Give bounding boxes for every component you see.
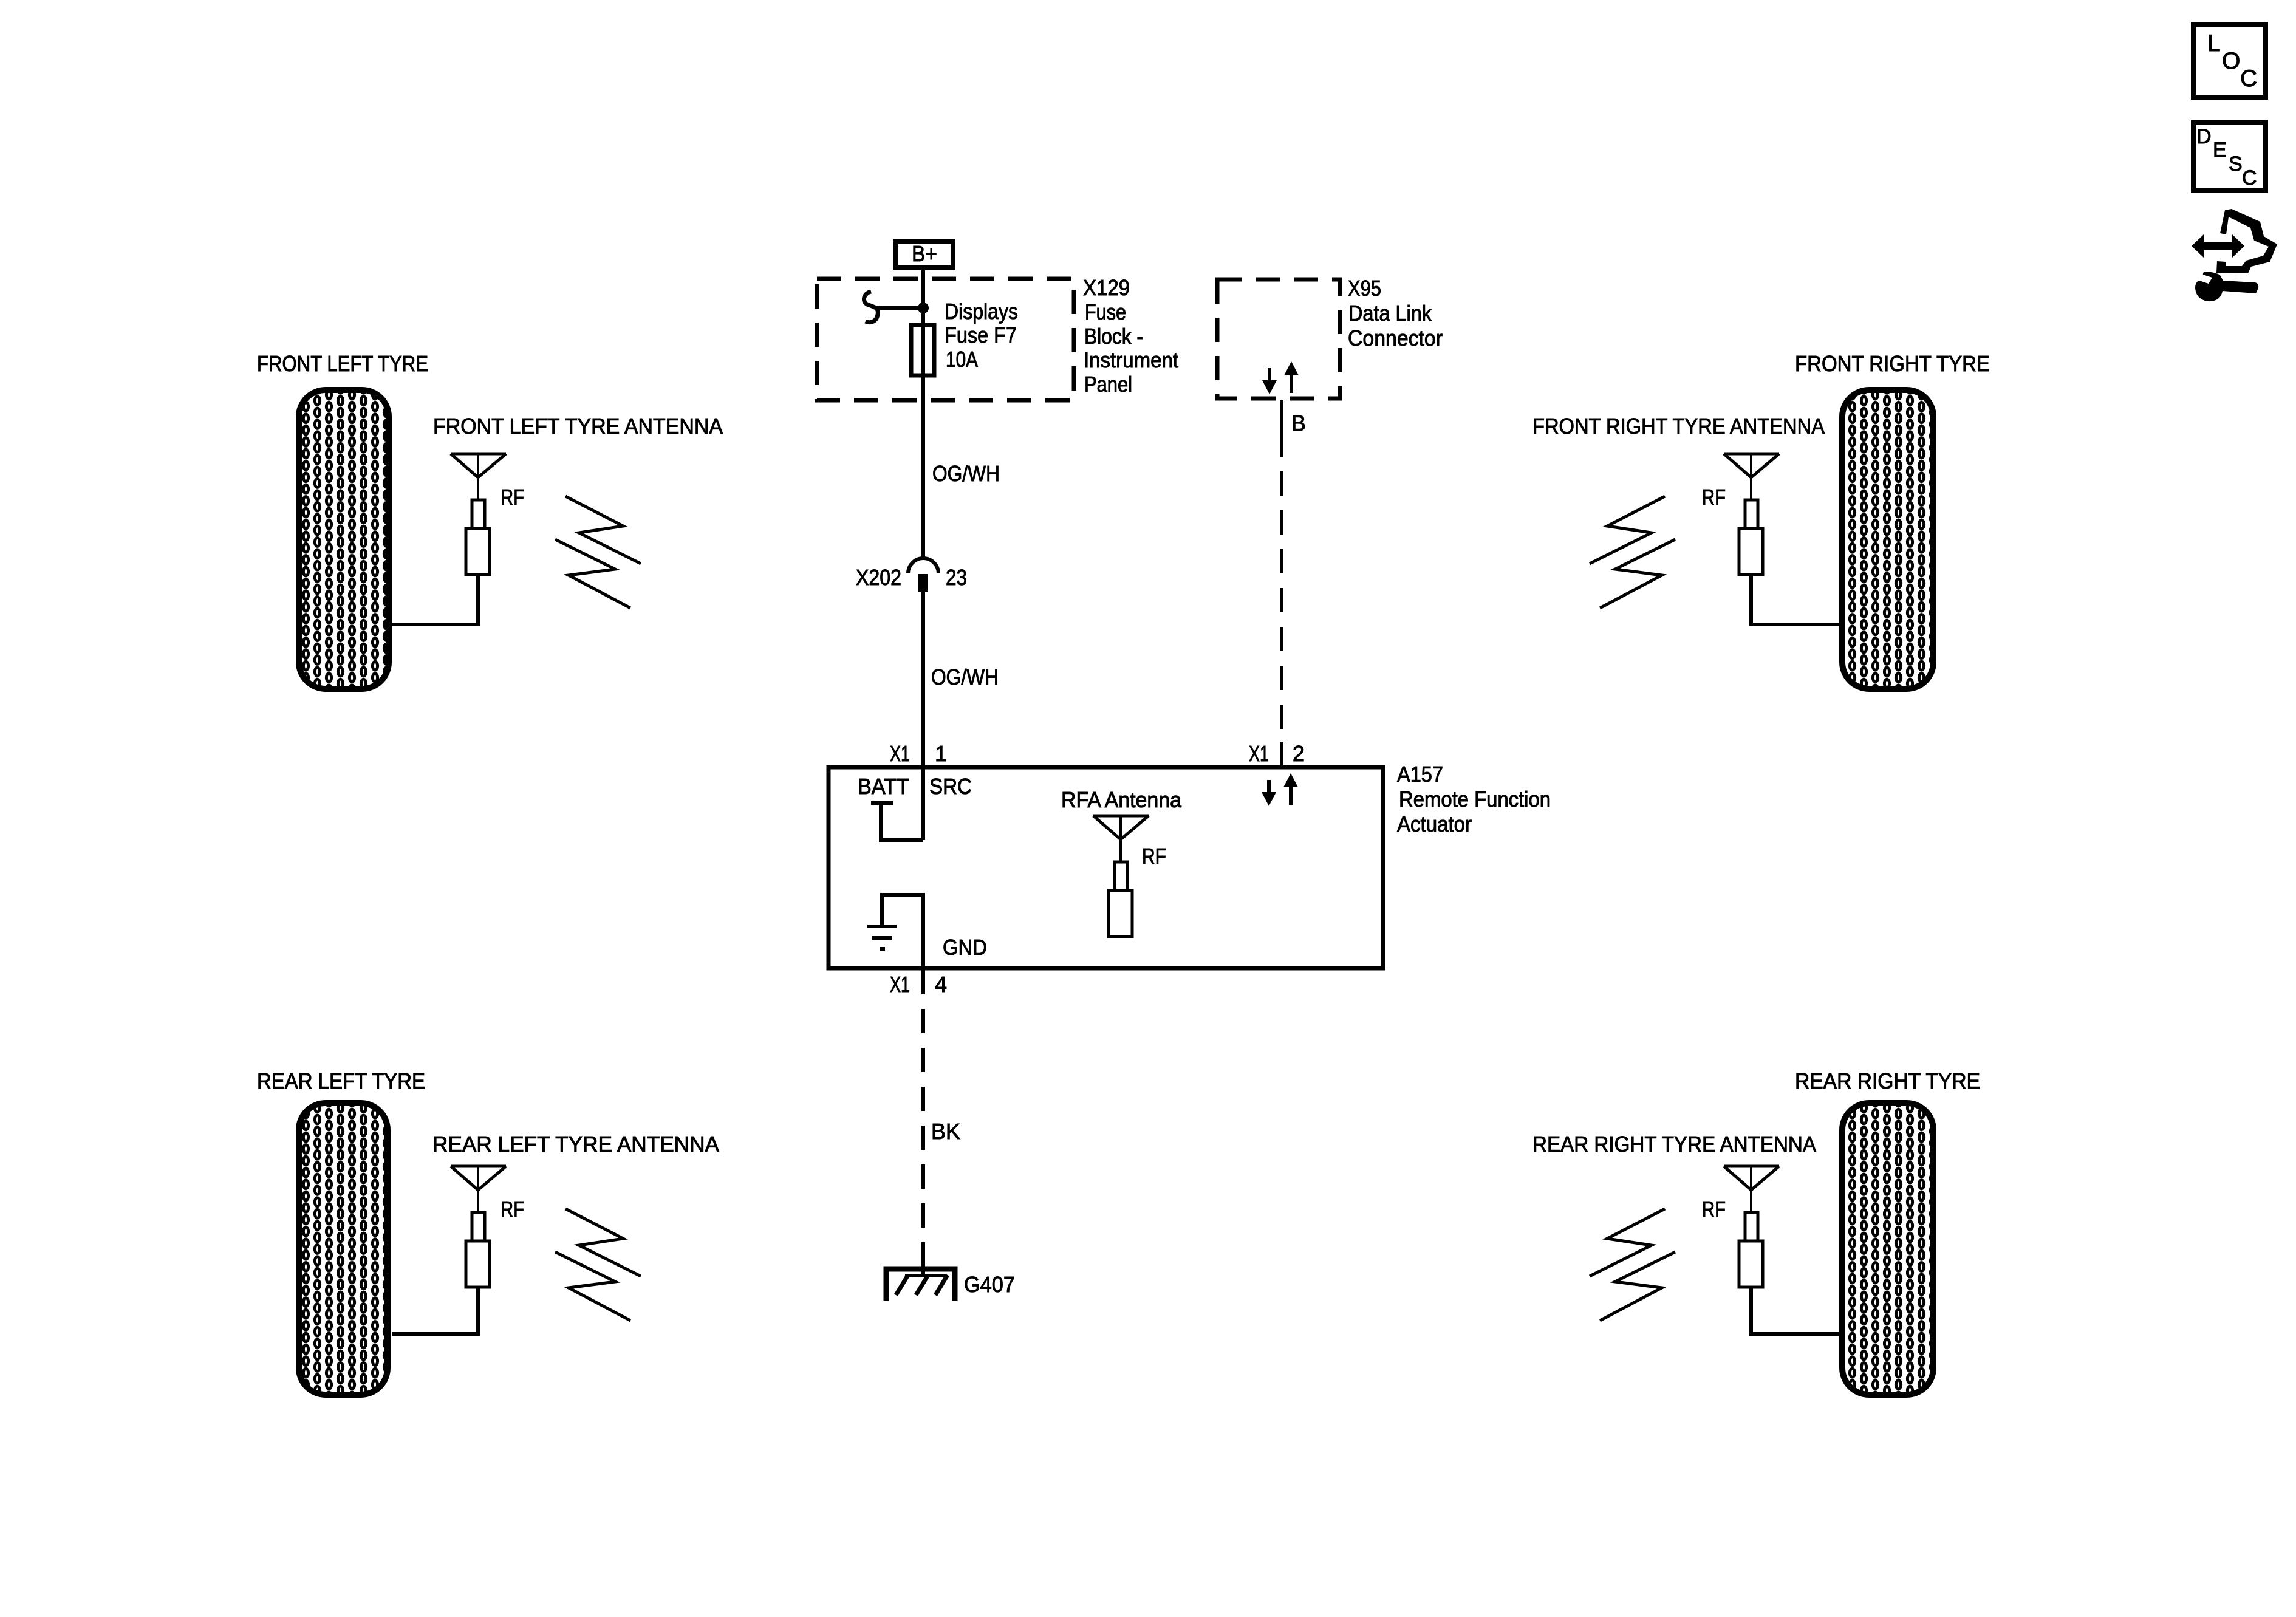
svg-text:B: B [1291,411,1306,436]
svg-text:BATT: BATT [858,774,909,799]
wire rear right antenna to tyre [1751,1287,1840,1334]
ground G407 [886,1269,955,1301]
svg-text:X1: X1 [890,972,910,997]
svg-text:Block -: Block - [1084,324,1143,349]
svg-text:RF: RF [501,485,524,510]
svg-text:OG/WH: OG/WH [932,461,1000,486]
svg-text:Panel: Panel [1084,372,1132,397]
clip symbol in fuse block [864,292,878,323]
svg-text:FRONT RIGHT TYRE ANTENNA: FRONT RIGHT TYRE ANTENNA [1532,414,1825,439]
svg-text:FRONT RIGHT TYRE: FRONT RIGHT TYRE [1795,351,1990,376]
svg-text:RF: RF [1142,844,1166,869]
data link connector X95 (dashed box) [1217,279,1340,398]
svg-text:O: O [2222,48,2240,74]
svg-text:FRONT LEFT TYRE: FRONT LEFT TYRE [257,351,428,376]
svg-text:X1: X1 [890,741,910,766]
wire X95 to A157 pin B (dashed) [1280,400,1283,432]
tyre FRONT RIGHT TYRE [1842,390,1933,689]
RFA antenna symbol [1093,816,1149,937]
svg-text:Remote Function: Remote Function [1399,787,1551,812]
service/navigation icon: wrench [2195,272,2258,301]
arrows in A157 [1262,773,1298,806]
svg-text:BK: BK [931,1119,960,1144]
connector X202 pin 23 [908,558,938,573]
svg-text:Instrument: Instrument [1084,347,1178,372]
svg-text:REAR RIGHT TYRE ANTENNA: REAR RIGHT TYRE ANTENNA [1532,1132,1816,1157]
svg-text:RF: RF [1702,1197,1726,1222]
tyre REAR LEFT TYRE [299,1103,388,1395]
antenna REAR RIGHT TYRE ANTENNA [1724,1166,1779,1287]
svg-text:B+: B+ [912,241,937,266]
svg-text:RF: RF [1702,485,1726,510]
svg-text:X202: X202 [856,565,901,590]
svg-text:RF: RF [501,1197,524,1222]
antenna FRONT RIGHT TYRE ANTENNA [1724,454,1779,575]
svg-text:SRC: SRC [929,774,972,799]
svg-text:D: D [2196,125,2212,148]
svg-text:Connector: Connector [1348,326,1443,350]
antenna REAR LEFT TYRE ANTENNA [451,1166,506,1287]
antenna FRONT LEFT TYRE ANTENNA [451,454,506,575]
svg-text:10A: 10A [946,347,978,372]
RF waves symbol (rear right) [1590,1209,1675,1321]
svg-text:REAR LEFT TYRE: REAR LEFT TYRE [257,1068,425,1093]
svg-text:Fuse F7: Fuse F7 [945,323,1017,347]
svg-text:GND: GND [943,935,987,960]
RF waves symbol (front left) [555,496,641,608]
RF waves symbol (rear left) [555,1209,641,1321]
wire front left antenna to tyre [392,575,478,624]
svg-text:L: L [2207,30,2221,56]
junction dot [918,303,929,313]
wire B+ into fuse block [921,270,925,323]
svg-text:S: S [2229,152,2243,176]
svg-text:Data Link: Data Link [1348,301,1432,326]
BATT terminal symbol [871,803,923,840]
ground symbol inside A157 [867,895,923,970]
wire rear left antenna to tyre [392,1287,478,1334]
svg-text:4: 4 [935,972,947,997]
fuse F7 [911,325,934,375]
power node B+ [896,241,953,268]
svg-text:E: E [2213,138,2227,162]
arrows in X95 [1262,361,1299,394]
svg-text:X95: X95 [1348,276,1381,301]
svg-text:X129: X129 [1083,275,1130,300]
svg-text:G407: G407 [964,1272,1015,1297]
svg-text:1: 1 [935,741,947,766]
svg-text:Actuator: Actuator [1397,812,1472,836]
svg-text:23: 23 [946,565,967,590]
svg-text:C: C [2240,66,2257,92]
svg-text:FRONT LEFT TYRE ANTENNA: FRONT LEFT TYRE ANTENNA [433,414,723,439]
tyre REAR RIGHT TYRE [1842,1103,1933,1395]
tyre FRONT LEFT TYRE [299,390,389,689]
svg-text:X1: X1 [1249,741,1269,766]
svg-text:Displays: Displays [945,299,1018,324]
service/navigation icon: curved route [2216,209,2277,273]
svg-text:REAR RIGHT TYRE: REAR RIGHT TYRE [1795,1068,1980,1093]
module A157 Remote Function Actuator [829,767,1383,968]
wire front right antenna to tyre [1751,575,1840,624]
svg-text:RFA Antenna: RFA Antenna [1061,787,1182,812]
LOC icon [2193,24,2266,97]
wire A157 to G407 (BK, dashed) [921,970,925,1253]
svg-text:A157: A157 [1397,762,1443,787]
service/navigation icon: double arrow [2192,234,2244,258]
svg-text:REAR LEFT TYRE ANTENNA: REAR LEFT TYRE ANTENNA [432,1132,719,1157]
RF waves symbol (front right) [1590,496,1675,608]
DESC icon [2193,122,2266,191]
svg-text:2: 2 [1293,741,1305,766]
svg-text:C: C [2242,166,2257,190]
svg-text:OG/WH: OG/WH [931,665,999,689]
wire fuse to X202 (OG/WH) [921,377,925,559]
fuse block X129 (dashed box) [817,279,1074,400]
wire X202 to A157 (OG/WH) [921,592,925,840]
svg-text:Fuse: Fuse [1085,299,1126,324]
